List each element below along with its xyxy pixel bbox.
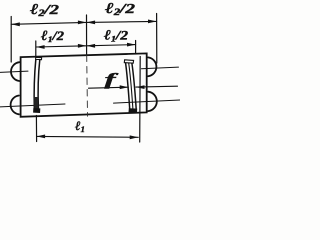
arrow: [37, 135, 46, 139]
arrow: [130, 135, 139, 139]
centerline lug bottom-right: [114, 100, 181, 103]
leaf left bottom cap: [34, 109, 40, 113]
svg-text:f: f: [105, 70, 121, 89]
leaf right bottom cap: [129, 109, 137, 113]
centerline lug bottom-left: [0, 104, 65, 107]
f leader right: [136, 85, 178, 88]
centerline lug top-left: [0, 71, 28, 72]
leaf left edge a: [34, 60, 36, 109]
f leader left: [89, 87, 129, 88]
extension line l1 bottom left: [35, 116, 37, 142]
leaf right edge b: [132, 63, 136, 109]
extension line right (outer lug edge): [156, 14, 158, 64]
arrow: [11, 22, 20, 26]
dimension line l2/2 right: [87, 21, 157, 22]
lug arc top-left: [11, 62, 19, 81]
arrow: [120, 85, 129, 89]
arrow: [136, 85, 145, 89]
arrow: [148, 20, 157, 24]
arrow: [78, 44, 87, 48]
svg-text:ℓ1/2: ℓ1/2: [41, 28, 65, 44]
arrow: [87, 44, 96, 48]
main plate outline: [21, 53, 147, 116]
arrow: [78, 21, 87, 25]
extension line l1/2 right: [135, 41, 137, 54]
arrow: [36, 45, 45, 49]
center axis dashed: [86, 55, 89, 116]
leaf right chord line: [139, 57, 142, 143]
svg-text:ℓ1: ℓ1: [75, 118, 85, 134]
dimension line l2/2 left: [11, 22, 86, 24]
lug arc bottom-left: [11, 95, 19, 114]
centerline lug top-right: [141, 67, 178, 69]
svg-text:ℓ2/2: ℓ2/2: [105, 1, 135, 17]
leaf left lower solid part: [34, 97, 38, 109]
extension line l1/2 left: [35, 41, 37, 57]
leaf right middle line: [129, 63, 133, 109]
leaf left edge b: [38, 60, 40, 109]
dimension line l1/2 left: [36, 46, 87, 47]
leaf right top cap: [124, 60, 133, 63]
extension line left (outer lug edge): [10, 17, 12, 63]
arrow: [87, 21, 96, 25]
lug arc bottom-right: [148, 92, 157, 111]
extension line center axis upper: [86, 15, 88, 55]
arrow: [127, 43, 136, 47]
dimension line l1/2 right: [87, 45, 136, 46]
leaf right edge a: [126, 63, 130, 109]
lug arc top-right: [148, 57, 156, 76]
svg-text:ℓ1/2: ℓ1/2: [104, 27, 129, 43]
leaf left top cap: [36, 57, 42, 59]
svg-text:ℓ2/2: ℓ2/2: [30, 2, 59, 18]
dimension line l1: [37, 135, 139, 138]
